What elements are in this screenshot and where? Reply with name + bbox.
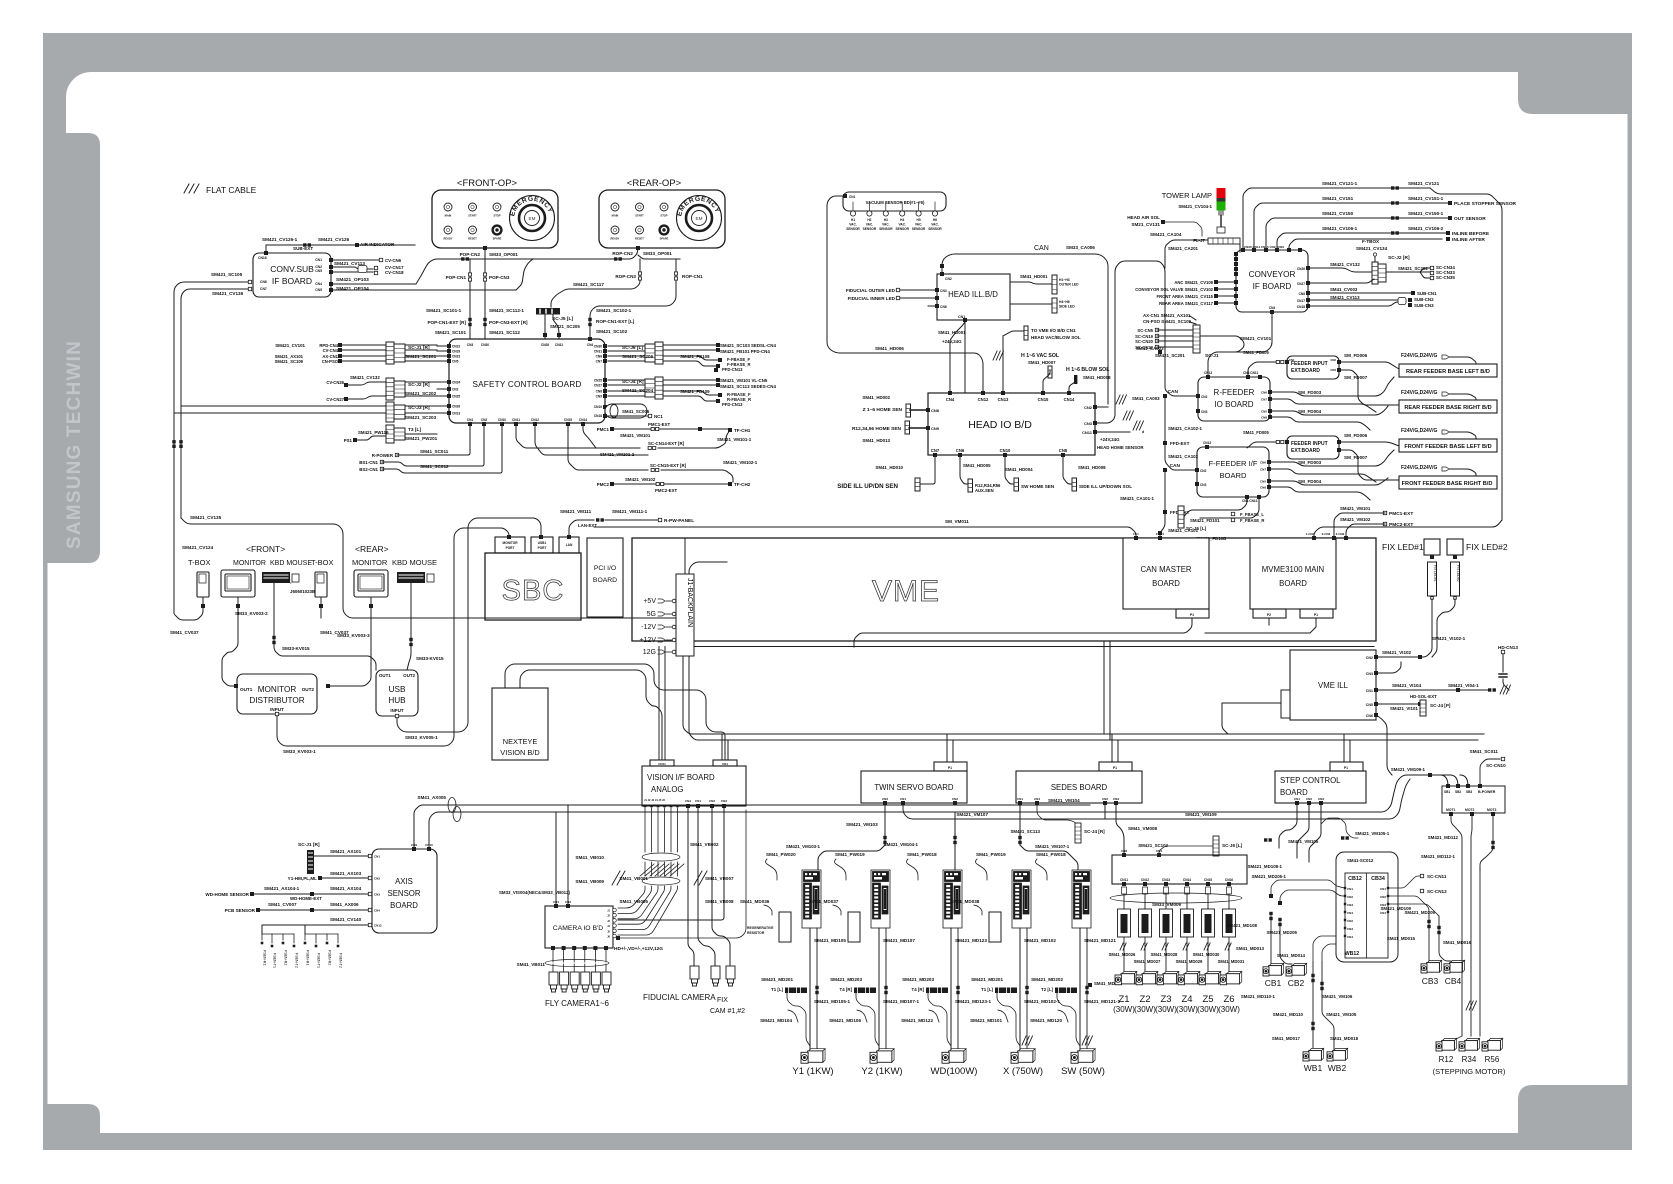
R-feeder right pins (1268, 390, 1272, 394)
motor Z3 (1157, 972, 1179, 985)
svg-text:<FRONT>: <FRONT> (246, 544, 285, 554)
board STEP CONTROL BOARD (1275, 771, 1366, 803)
svg-text:CN7: CN7 (1260, 468, 1266, 472)
svg-text:STOP: STOP (493, 214, 500, 218)
svg-text:SM33_KV003-2: SM33_KV003-2 (235, 611, 268, 616)
SC-CN14-EXT (590, 447, 640, 449)
svg-text:CN1: CN1 (900, 797, 906, 801)
svg-text:SPARE: SPARE (660, 237, 669, 241)
camera io bottom cameras (551, 946, 555, 950)
svg-text:OUT1: OUT1 (379, 673, 391, 678)
motor Z6 (1220, 972, 1242, 985)
svg-text:CN2: CN2 (374, 877, 380, 881)
svg-text:SB1: SB1 (1444, 790, 1450, 794)
svg-text:ANALOG: ANALOG (651, 785, 684, 794)
svg-text:CN1: CN1 (1366, 689, 1373, 693)
svg-text:CN17: CN17 (1297, 299, 1305, 303)
wire SUB-EXT air indicator (266, 245, 415, 253)
svg-text:SC-CN35: SC-CN35 (1436, 275, 1455, 280)
svg-text:CB2: CB2 (1288, 978, 1305, 988)
svg-text:TO VME I/O B/D CN1: TO VME I/O B/D CN1 (1031, 328, 1076, 333)
svg-text:SENSOR: SENSOR (895, 227, 909, 231)
svg-text:SC-CN5: SC-CN5 (1137, 328, 1153, 333)
svg-text:J2: J2 (607, 914, 610, 918)
svg-text:SM21_CV131: SM21_CV131 (1131, 222, 1160, 227)
svg-text:SM421_CV121-1: SM421_CV121-1 (1322, 181, 1358, 186)
svg-text:LAN: LAN (566, 543, 573, 547)
svg-text:SM33_OP001: SM33_OP001 (643, 251, 672, 256)
svg-text:PMC2: PMC2 (597, 482, 610, 487)
monitor rear icon (354, 570, 388, 597)
svg-text:SM421_VM102: SM421_VM102 (1340, 517, 1371, 522)
svg-text:SC-J6 [L]: SC-J6 [L] (1222, 843, 1243, 848)
axis row3 (250, 892, 254, 896)
svg-text:F24V/G,D24V/G: F24V/G,D24V/G (1401, 428, 1438, 434)
svg-text:EM: EM (696, 216, 703, 221)
svg-text:SM421_VM107: SM421_VM107 (956, 812, 988, 817)
svg-text:MONITOR: MONITOR (233, 560, 266, 567)
legend flat cable (184, 184, 199, 193)
svg-text:TOWER LAMP: TOWER LAMP (1162, 191, 1212, 200)
svg-text:SM421_SC109: SM421_SC109 (275, 359, 304, 364)
svg-text:SM41_PW020: SM41_PW020 (766, 852, 796, 857)
svg-text:SM41_MD016: SM41_MD016 (1443, 940, 1472, 945)
drops to P1 tabs (946, 734, 948, 762)
svg-text:SM421_MD107: SM421_MD107 (883, 938, 915, 943)
wires vision CN pins down to cameras (688, 808, 694, 966)
wires step control down (1279, 803, 1297, 848)
board F-FEEDER I/F BOARD (1197, 447, 1269, 497)
svg-text:WD(100W): WD(100W) (931, 1066, 978, 1077)
svg-text:CN4: CN4 (1156, 849, 1162, 853)
svg-text:3-CN4: 3-CN4 (1336, 532, 1345, 536)
svg-text:SM41_HD007: SM41_HD007 (1028, 360, 1056, 365)
svg-text:AIR INDICATOR: AIR INDICATOR (360, 242, 395, 247)
svg-text:BS1-CN1: BS1-CN1 (359, 460, 378, 465)
svg-text:PMC1-EXT: PMC1-EXT (1389, 511, 1413, 517)
svg-text:WB1: WB1 (1304, 1063, 1323, 1073)
svg-text:MAIN: MAIN (445, 214, 452, 218)
board CB12/CB34 box (1336, 852, 1398, 962)
svg-text:CN14: CN14 (1064, 397, 1075, 402)
svg-text:CN3: CN3 (1113, 797, 1119, 801)
svg-text:SPARE: SPARE (493, 237, 502, 241)
svg-text:SB2: SB2 (1455, 790, 1461, 794)
svg-text:CAN: CAN (1168, 389, 1179, 395)
board HEAD ILL B/D (937, 274, 1010, 320)
axis row5 tree (262, 924, 368, 926)
axis row4 (256, 908, 260, 912)
svg-text:SM41_SC006: SM41_SC006 (622, 409, 650, 414)
svg-text:SM421_SC102: SM421_SC102 (596, 329, 628, 334)
regenerative resistor (989, 912, 1001, 942)
svg-text:TF-CH1: TF-CH1 (734, 428, 751, 433)
servo drive Y1 (1KW) (802, 870, 821, 928)
F-feeder right pins (1267, 460, 1271, 464)
svg-text:SM421_VM105-1: SM421_VM105-1 (1355, 831, 1390, 836)
backplane double bus to board tabs (683, 656, 1484, 734)
motor Y1 (1KW) (801, 1049, 825, 1064)
svg-text:<REAR>: <REAR> (355, 544, 389, 554)
svg-text:SM421_VI101: SM421_VI101 (1390, 706, 1418, 711)
svg-text:SM421_PW201: SM421_PW201 (405, 436, 438, 441)
vm labels drives (954, 812, 956, 845)
svg-text:SC-J5 [L]: SC-J5 [L] (552, 316, 573, 322)
board B-POWER (1442, 786, 1505, 813)
svg-text:F-TBOX: F-TBOX (1362, 239, 1380, 244)
svg-text:CN1: CN1 (1017, 797, 1023, 801)
svg-text:POP-CN1: POP-CN1 (446, 275, 467, 280)
svg-text:SM41_MD014: SM41_MD014 (1277, 953, 1306, 958)
svg-text:HEAD HOME SENSOR: HEAD HOME SENSOR (1097, 445, 1144, 450)
svg-text:SM421_MD105: SM421_MD105 (814, 938, 846, 943)
svg-text:CN2: CN2 (952, 797, 958, 801)
svg-text:CN1: CN1 (315, 258, 322, 262)
svg-text:SM41_PW019: SM41_PW019 (976, 852, 1006, 857)
tbox rear icon (315, 572, 327, 597)
svg-text:H4~H6: H4~H6 (1059, 300, 1070, 304)
svg-text:J1-BACKPLAIN: J1-BACKPLAIN (686, 578, 693, 627)
svg-text:SM33_VM009: SM33_VM009 (1152, 902, 1182, 907)
svg-text:FEEDER INPUT: FEEDER INPUT (1291, 361, 1328, 367)
svg-text:START: START (635, 214, 644, 218)
svg-text:MAIN: MAIN (612, 214, 619, 218)
FL-J7 connector (1208, 238, 1240, 244)
conveyor rows to right sensors (1430, 188, 1502, 520)
svg-text:RESET: RESET (635, 237, 644, 241)
board VME (632, 538, 1376, 641)
wire CV-CN6 (331, 259, 380, 261)
regenerative resistor (848, 912, 860, 942)
svg-text:H4: H4 (900, 218, 904, 222)
svg-text:HEAD AIR SOL: HEAD AIR SOL (1127, 215, 1160, 220)
svg-text:CN6: CN6 (940, 305, 947, 309)
regenerative resistor (779, 912, 791, 942)
svg-text:SC-J6 [L]: SC-J6 [L] (1186, 526, 1207, 531)
vision CN11 riser (658, 647, 660, 761)
board VACUUM SENSOR BD (843, 192, 946, 211)
svg-text:R12,34,56 HOME SEN: R12,34,56 HOME SEN (852, 426, 902, 432)
svg-text:SM41_HD002: SM41_HD002 (862, 395, 890, 400)
svg-text:SM421_VM101: SM421_VM101 (1340, 506, 1371, 511)
svg-text:CN28: CN28 (541, 343, 549, 347)
svg-text:SM41_CA023: SM41_CA023 (1136, 346, 1164, 351)
svg-text:SM421_CV150-1: SM421_CV150-1 (1408, 211, 1444, 216)
axis row2 (318, 876, 322, 880)
svg-text:SM421_MD203: SM421_MD203 (902, 977, 934, 982)
svg-text:CN6: CN6 (260, 280, 267, 284)
svg-text:P1: P1 (948, 766, 952, 770)
svg-text:VAC.: VAC. (899, 223, 906, 227)
svg-text:AUX.SEN: AUX.SEN (975, 488, 994, 493)
svg-text:POP-CN3-EXT [R]: POP-CN3-EXT [R] (489, 320, 528, 325)
svg-text:SM421_VM101: SM421_VM101 (620, 433, 651, 438)
svg-text:CAMERA IO B'D: CAMERA IO B'D (553, 925, 603, 932)
svg-text:Z1: Z1 (1118, 994, 1129, 1005)
svg-text:SM421_CV151: SM421_CV151 (1322, 196, 1354, 201)
svg-text:SM41_VB008: SM41_VB008 (705, 899, 734, 904)
svg-text:CN5: CN5 (1261, 410, 1267, 414)
svg-text:SM41_PW018: SM41_PW018 (1036, 852, 1066, 857)
svg-text:SM421_CV136: SM421_CV136 (212, 291, 244, 296)
svg-text:J3: J3 (607, 919, 610, 923)
svg-text:BOARD: BOARD (1279, 579, 1307, 588)
svg-text:R-PW-PANEL: R-PW-PANEL (664, 518, 694, 524)
svg-text:CAN: CAN (1170, 463, 1181, 469)
svg-text:POP-CN3: POP-CN3 (489, 275, 510, 280)
svg-text:CN15: CN15 (1038, 397, 1049, 402)
conveyor bottom pin CN4 (1270, 310, 1274, 314)
SBC ports (495, 537, 525, 553)
svg-text:SM41_VB010: SM41_VB010 (575, 855, 604, 860)
svg-text:CN3: CN3 (1347, 927, 1353, 931)
wire +24V24G to head io (964, 320, 966, 393)
svg-text:SENSOR: SENSOR (388, 889, 421, 898)
operator panel REAR-OP (599, 190, 725, 248)
svg-text:CN2: CN2 (481, 418, 488, 422)
svg-text:H3: H3 (884, 218, 888, 222)
head io right pins (1093, 405, 1097, 409)
svg-text:SM41_MD036: SM41_MD036 (740, 899, 770, 904)
svg-text:HUB: HUB (388, 696, 406, 705)
board MONITOR DISTRIBUTOR (237, 674, 317, 714)
aux sen (960, 455, 968, 484)
hatches vb (694, 871, 707, 885)
svg-text:CN4: CN4 (946, 397, 955, 402)
svg-text:CN18: CN18 (1297, 305, 1305, 309)
svg-text:F24V/G,D24V/G: F24V/G,D24V/G (1401, 353, 1438, 359)
vme ill CN3 wire (1376, 662, 1401, 673)
board CONV.SUB IF BOARD (253, 253, 331, 297)
svg-text:SM421_CV134: SM421_CV134 (1356, 246, 1388, 251)
svg-text:SM421_SC112: SM421_SC112 (489, 330, 520, 335)
svg-text:CN14: CN14 (1183, 878, 1191, 882)
svg-text:CN14: CN14 (579, 418, 587, 422)
svg-text:CN2: CN2 (1330, 358, 1336, 362)
svg-text:SM421_CV124: SM421_CV124 (182, 545, 214, 550)
svg-text:SM421_VM106: SM421_VM106 (1322, 994, 1353, 999)
motor SW (50W) (1071, 1049, 1095, 1064)
svg-text:PCI I/O: PCI I/O (594, 565, 616, 572)
svg-text:WD-HOME-EXT: WD-HOME-EXT (290, 896, 322, 901)
svg-text:FIX LED#2: FIX LED#2 (1466, 542, 1508, 552)
svg-text:SM421_CV101: SM421_CV101 (275, 343, 305, 348)
svg-text:PORT: PORT (538, 546, 547, 550)
svg-text:STEP CONTROL: STEP CONTROL (1280, 776, 1341, 785)
svg-text:CN6: CN6 (956, 448, 965, 453)
svg-text:SM421_CV151-1: SM421_CV151-1 (1408, 196, 1444, 201)
svg-text:SM41_HD001: SM41_HD001 (1020, 274, 1048, 279)
svg-text:CN13: CN13 (998, 397, 1009, 402)
svg-text:SUB-CN1: SUB-CN1 (1417, 291, 1437, 296)
servo drive SW (50W) (1072, 870, 1091, 928)
HD-CN13 stub (1501, 650, 1504, 653)
svg-text:SIDE ILL UP/DN SEN: SIDE ILL UP/DN SEN (837, 483, 898, 490)
svg-text:CB4: CB4 (1445, 976, 1462, 986)
wires NEXTEYE to vision (505, 664, 725, 760)
svg-text:USB: USB (389, 685, 406, 694)
svg-text:SM41_VB005: SM41_VB005 (619, 899, 648, 904)
svg-text:CAN MASTER: CAN MASTER (1140, 565, 1191, 574)
svg-text:CN2: CN2 (1347, 919, 1353, 923)
svg-text:CN5: CN5 (315, 288, 322, 292)
svg-text:CN6: CN6 (1261, 391, 1267, 395)
svg-text:SM41_MD037: SM41_MD037 (809, 899, 839, 904)
svg-text:SM41_VB001: SM41_VB001 (619, 876, 648, 881)
svg-text:CN13: CN13 (452, 412, 460, 416)
svg-text:SM41_HD005: SM41_HD005 (963, 463, 991, 468)
svg-text:SM421_VM105: SM421_VM105 (1288, 839, 1319, 844)
safety right side J4 group (603, 378, 607, 382)
svg-text:CN1: CN1 (1294, 797, 1300, 801)
vme bottom bus (694, 646, 1374, 648)
svg-text:CN3: CN3 (467, 343, 474, 347)
svg-text:CN2: CN2 (452, 388, 459, 392)
svg-text:SC-CN10: SC-CN10 (1486, 763, 1506, 768)
svg-text:CN2: CN2 (945, 277, 952, 281)
vme ill tab wire (1222, 703, 1228, 734)
svg-text:SIDE ILL UP/DOWN SOL: SIDE ILL UP/DOWN SOL (1079, 484, 1132, 489)
svg-text:CN11: CN11 (658, 762, 666, 766)
svg-text:F24V/G,D24V/G: F24V/G,D24V/G (1401, 465, 1438, 471)
long verticals to monitor area (172, 440, 175, 443)
svg-text:X (750W): X (750W) (1003, 1066, 1043, 1077)
svg-text:J1 J2 J3 J4 J5 J6: J1 J2 J3 J4 J5 J6 (644, 798, 665, 802)
svg-text:H 1~6 VAC SOL: H 1~6 VAC SOL (1021, 353, 1060, 359)
svg-text:CN9: CN9 (596, 395, 603, 399)
svg-text:CN8: CN8 (1260, 486, 1266, 490)
b-power top arcs (1440, 775, 1468, 786)
svg-text:+5V: +5V (643, 598, 656, 605)
wire kbd front to usb hub (274, 583, 376, 670)
board SBC (485, 553, 581, 620)
svg-text:CN26 CN14 CN15 CN9 CN29: CN26 CN14 CN15 CN9 CN29 (1244, 245, 1284, 249)
svg-text:SM41_MD038: SM41_MD038 (950, 899, 980, 904)
svg-text:START: START (468, 214, 477, 218)
svg-text:VAC.: VAC. (849, 223, 856, 227)
svg-text:12G: 12G (643, 649, 656, 656)
svg-text:FLY CAMERA1~6: FLY CAMERA1~6 (545, 999, 610, 1008)
svg-text:1-CN4: 1-CN4 (1306, 532, 1315, 536)
svg-text:H6: H6 (933, 218, 937, 222)
wire LAN (569, 520, 594, 537)
svg-text:SM_VM011: SM_VM011 (945, 519, 969, 524)
svg-text:SM421_SC205: SM421_SC205 (550, 324, 580, 329)
svg-text:Z2: Z2 (1139, 994, 1150, 1005)
svg-text:VAC.: VAC. (882, 223, 889, 227)
svg-text:H5: H5 (917, 218, 921, 222)
svg-text:CV-CN6: CV-CN6 (385, 258, 402, 263)
svg-text:HD-CN13: HD-CN13 (1498, 645, 1518, 650)
svg-text:IF BOARD: IF BOARD (1253, 282, 1292, 291)
svg-text:CN4: CN4 (1034, 797, 1040, 801)
svg-text:SM421_MD110: SM421_MD110 (1273, 1012, 1304, 1017)
wire monitor rear to distributor out2 (370, 597, 372, 604)
svg-text:SM421_OP103: SM421_OP103 (336, 277, 369, 283)
svg-text:PMC1-EXT: PMC1-EXT (648, 422, 671, 427)
wire usb hub input (397, 518, 541, 732)
svg-text:CN-PSO: CN-PSO (322, 359, 339, 364)
svg-text:SM41_FD005: SM41_FD005 (1243, 430, 1270, 435)
wire monitor front to distributor (237, 597, 239, 604)
bundle marker axis bus (448, 798, 456, 813)
svg-text:SM33_KV003-1: SM33_KV003-1 (283, 749, 316, 754)
board SAFETY CONTROL BOARD (449, 339, 605, 423)
svg-text:SIDE LED: SIDE LED (1059, 305, 1075, 309)
svg-text:VACUUM SENSOR BD(#1~#6): VACUUM SENSOR BD(#1~#6) (866, 200, 925, 205)
svg-text:SM421_SC117: SM421_SC117 (573, 282, 604, 287)
svg-text:PFD-CN13: PFD-CN13 (722, 367, 743, 372)
svg-text:SM41_MD027: SM41_MD027 (1134, 959, 1161, 964)
svg-text:FSEN-T2: FSEN-T2 (295, 953, 299, 968)
wire SM421_CA101 to CAN master (1159, 533, 1161, 538)
svg-text:CN12: CN12 (978, 397, 989, 402)
svg-text:SC-J4 [P]: SC-J4 [P] (1430, 703, 1451, 708)
svg-text:PCB SENSOR: PCB SENSOR (225, 908, 256, 913)
svg-text:ROP-CN2: ROP-CN2 (612, 251, 633, 256)
svg-text:CN5: CN5 (1366, 703, 1373, 707)
wire SM421_CV113 to CV-CN17/18 (331, 267, 373, 269)
svg-text:SM421_VI102-1: SM421_VI102-1 (1432, 636, 1466, 641)
svg-text:SM421_VM104: SM421_VM104 (1048, 798, 1080, 803)
svg-text:SM41_MD018: SM41_MD018 (1330, 1036, 1359, 1041)
svg-text:WB2: WB2 (1328, 1063, 1347, 1073)
svg-text:SM421_MD202: SM421_MD202 (1031, 977, 1063, 982)
svg-text:OUTER LED: OUTER LED (1059, 283, 1079, 287)
svg-text:SC-J2 [R]: SC-J2 [R] (1388, 255, 1410, 261)
svg-text:CN2: CN2 (1306, 797, 1312, 801)
svg-text:SM421_MD122: SM421_MD122 (901, 1018, 933, 1023)
svg-text:SM33_OP001: SM33_OP001 (489, 252, 518, 257)
wires drive SW (50W) to motor (1079, 928, 1081, 1050)
wire CAN trunk right (1165, 352, 1198, 396)
svg-text:SM_FD004: SM_FD004 (1298, 479, 1322, 484)
svg-text:CN2: CN2 (1200, 469, 1207, 473)
svg-text:BOARD: BOARD (1280, 788, 1308, 797)
svg-text:ROP-CN1-EXT [L]: ROP-CN1-EXT [L] (596, 319, 635, 324)
svg-text:+12V: +12V (639, 637, 656, 644)
svg-text:Z6: Z6 (1223, 994, 1234, 1005)
svg-text:SM421_MD108-1: SM421_MD108-1 (1248, 864, 1283, 869)
svg-text:FRONT FEEDER BASE RIGHT B/D: FRONT FEEDER BASE RIGHT B/D (1402, 481, 1493, 487)
connector SC-J2 group (447, 380, 451, 384)
svg-text:CN11: CN11 (512, 418, 520, 422)
board TWIN SERVO BOARD (861, 771, 967, 803)
svg-text:P1: P1 (1344, 766, 1348, 770)
motor CB3 (1421, 960, 1442, 973)
svg-text:FC1: FC1 (1133, 532, 1139, 536)
svg-text:+24V,24G: +24V,24G (1100, 437, 1120, 442)
svg-text:MVME3100 MAIN: MVME3100 MAIN (1262, 565, 1324, 574)
svg-text:SM421_MD201: SM421_MD201 (761, 977, 793, 982)
svg-text:CN3: CN3 (882, 797, 888, 801)
svg-text:CN4: CN4 (1347, 935, 1353, 939)
PMC1 row (610, 427, 614, 431)
connector SC-J1 (386, 342, 394, 364)
svg-text:CN4: CN4 (1347, 911, 1353, 915)
vme ill CN1 row (1376, 689, 1490, 691)
POP-CN1/CN3 connectors (469, 259, 471, 339)
svg-text:SM_FD003: SM_FD003 (1298, 460, 1322, 465)
svg-text:FSEN-R2: FSEN-R2 (284, 950, 288, 965)
svg-text:F_FBASE_L: F_FBASE_L (1240, 512, 1264, 517)
svg-text:SM421_CV135: SM421_CV135 (190, 515, 222, 520)
svg-text:CN1: CN1 (467, 418, 474, 422)
svg-text:SM41_MD031: SM41_MD031 (1218, 959, 1245, 964)
svg-text:CN10: CN10 (498, 418, 506, 422)
svg-text:CN1: CN1 (695, 799, 701, 803)
svg-text:H 1~6 BLOW SOL: H 1~6 BLOW SOL (1066, 367, 1110, 373)
